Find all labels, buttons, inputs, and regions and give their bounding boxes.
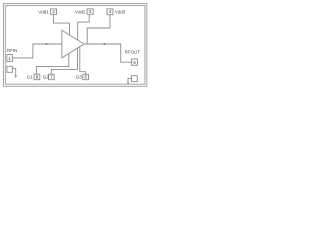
svg-text:RFIN: RFIN <box>7 48 18 53</box>
package outline inner <box>5 6 145 85</box>
wire ground right <box>128 78 132 82</box>
pin box 3 <box>87 9 93 14</box>
ground arrow left <box>14 76 17 78</box>
svg-text:5: 5 <box>133 60 136 65</box>
wire Vdd2 to amp <box>78 14 90 40</box>
ground arrow right <box>127 82 130 84</box>
ground box right <box>132 76 138 82</box>
pin box 7 <box>49 74 55 80</box>
wire G3 to amp <box>80 47 86 74</box>
svg-text:G3: G3 <box>76 75 83 80</box>
svg-text:RFOUT: RFOUT <box>125 49 141 54</box>
node dot output <box>103 43 105 45</box>
pin box 6 <box>83 74 89 79</box>
package outline outer <box>3 4 146 87</box>
svg-text:G2: G2 <box>43 75 50 80</box>
pin box 2 <box>50 9 56 14</box>
wire ground left <box>12 69 15 76</box>
svg-text:Vdd3: Vdd3 <box>115 10 126 15</box>
ground box left <box>7 66 12 72</box>
svg-text:7: 7 <box>50 75 53 80</box>
svg-text:2: 2 <box>52 9 55 14</box>
wire amp output to RFOUT <box>84 44 132 62</box>
svg-text:3: 3 <box>89 9 92 14</box>
wire G2 to amp <box>51 48 77 74</box>
node dot input <box>46 43 48 45</box>
pin box 4 <box>107 9 113 15</box>
svg-text:Vdd1: Vdd1 <box>38 10 49 15</box>
pin box 5 <box>132 59 138 65</box>
pin box 1 <box>7 55 12 62</box>
pin box 8 <box>34 74 40 80</box>
svg-text:4: 4 <box>109 9 112 14</box>
svg-text:Vdd2: Vdd2 <box>75 10 86 15</box>
svg-text:1: 1 <box>9 56 12 61</box>
op-amp U1 amplifier triangle <box>62 30 84 58</box>
wire RFIN to amp input <box>12 44 62 58</box>
wire Vdd1 to amp <box>53 14 69 35</box>
svg-text:6: 6 <box>85 75 88 80</box>
svg-text:G1: G1 <box>27 75 34 80</box>
wire G1 to amp <box>36 54 68 75</box>
wire Vdd3 to output net <box>87 15 110 44</box>
svg-text:8: 8 <box>36 75 39 80</box>
